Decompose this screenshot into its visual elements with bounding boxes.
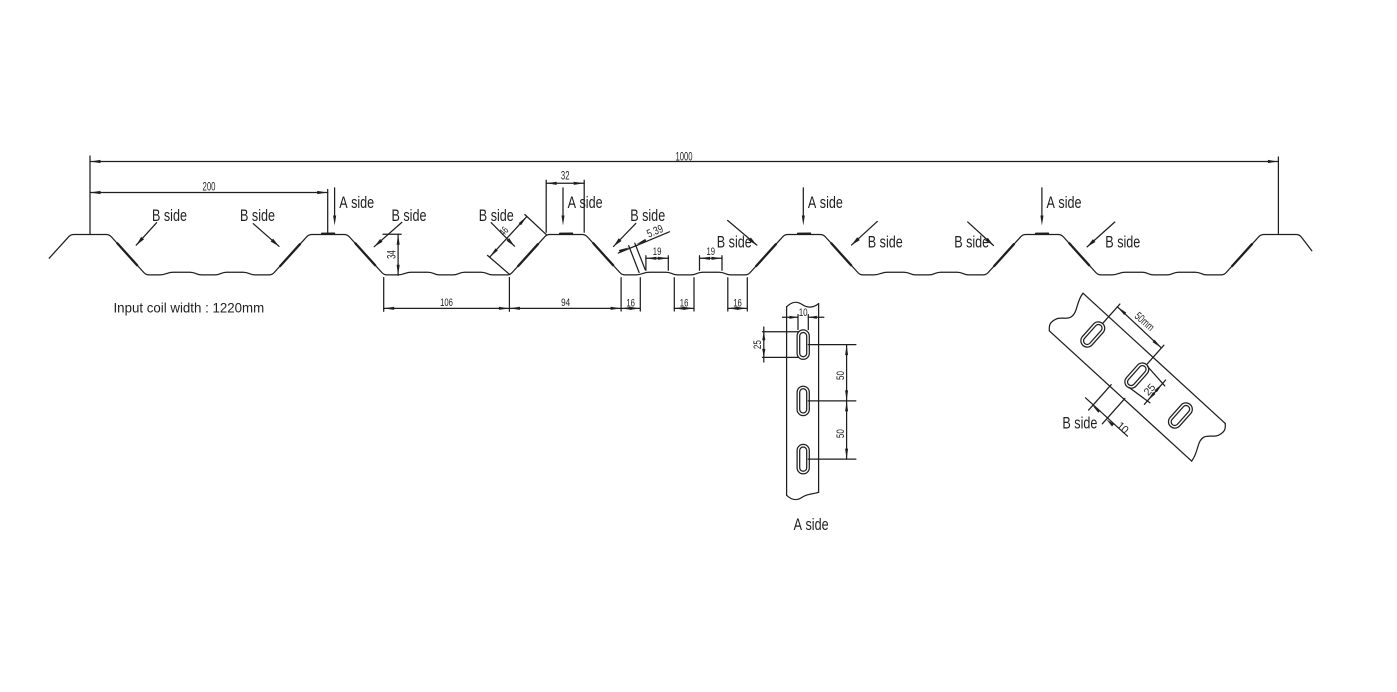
svg-text:A side: A side (339, 193, 374, 212)
svg-text:A side: A side (568, 193, 603, 212)
svg-text:34: 34 (386, 250, 399, 259)
svg-text:B side: B side (392, 206, 427, 225)
svg-text:94: 94 (561, 297, 570, 310)
svg-text:50: 50 (835, 371, 848, 380)
svg-text:16: 16 (680, 297, 689, 310)
svg-text:A side: A side (808, 193, 843, 212)
svg-text:B side: B side (717, 233, 752, 252)
svg-text:32: 32 (561, 170, 570, 183)
svg-text:B side: B side (479, 206, 514, 225)
svg-text:Input coil width : 1220mm: Input coil width : 1220mm (114, 300, 265, 315)
svg-text:106: 106 (440, 297, 453, 310)
svg-text:50: 50 (835, 429, 848, 438)
svg-text:B side: B side (152, 206, 187, 225)
svg-text:A side: A side (794, 515, 829, 534)
svg-text:1000: 1000 (676, 151, 693, 164)
svg-text:19: 19 (707, 246, 716, 259)
svg-text:A side: A side (1047, 193, 1082, 212)
svg-text:B side: B side (240, 206, 275, 225)
svg-text:16: 16 (733, 297, 742, 310)
svg-text:B side: B side (954, 233, 989, 252)
svg-text:19: 19 (653, 246, 662, 259)
svg-text:B side: B side (1062, 414, 1097, 433)
svg-text:10: 10 (799, 307, 808, 320)
svg-text:200: 200 (202, 181, 215, 194)
svg-text:B side: B side (1105, 233, 1140, 252)
svg-text:B side: B side (630, 206, 665, 225)
svg-text:16: 16 (626, 297, 635, 310)
svg-text:25: 25 (752, 340, 765, 349)
svg-text:B side: B side (868, 233, 903, 252)
